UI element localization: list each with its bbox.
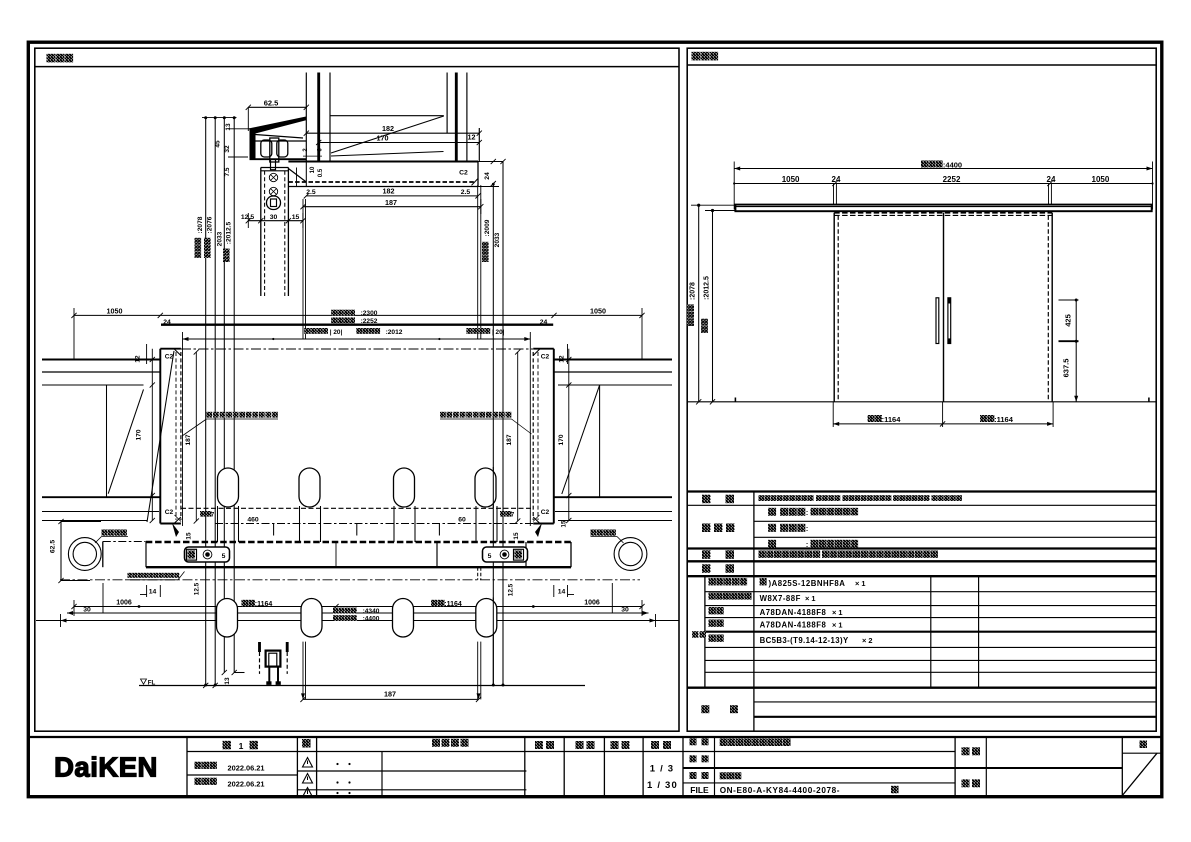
svg-text:15: 15: [561, 520, 568, 527]
hanger mounting plate: [250, 129, 256, 159]
svg-text:2.5: 2.5: [306, 189, 316, 196]
dim 13 floor: [234, 672, 244, 674]
hanging door bar top dashed: [146, 541, 571, 543]
plan break oval 4: [475, 468, 496, 507]
front view right door right edge: [1051, 213, 1053, 402]
rotated label 扉高:2012.5: [223, 249, 230, 262]
plan right jamb chamfers: [533, 349, 540, 356]
dim line 2009 redraw over oval: [492, 467, 494, 508]
title block 頁 cell: [1122, 752, 1162, 754]
plan left jamb chamfers: [174, 349, 181, 356]
extension line 13 dim bottom: [228, 128, 263, 130]
hanging door bar bottom: [146, 566, 571, 568]
floor guide outer box: [258, 642, 261, 652]
svg-text:182: 182: [382, 124, 394, 133]
spec table label 把手: [702, 550, 711, 559]
front view door top dashed: [834, 212, 1052, 214]
spec sub row 右扉: [709, 607, 716, 614]
spec value handle: [759, 551, 766, 558]
svg-text:A78DAN-4188F8: A78DAN-4188F8: [760, 621, 827, 630]
title block top border: [28, 736, 1162, 738]
svg-text::2012: :2012: [386, 329, 403, 336]
dim row 4400: [36, 620, 679, 622]
svg-text:1050: 1050: [590, 306, 606, 315]
svg-text:170: 170: [136, 429, 143, 440]
svg-text:24: 24: [832, 175, 841, 184]
svg-text:12.5: 12.5: [508, 583, 515, 596]
svg-text:425: 425: [1064, 314, 1073, 327]
svg-text:187: 187: [385, 198, 397, 207]
svg-text::: :: [806, 542, 808, 549]
front view left door left edge: [833, 213, 835, 402]
svg-text:5: 5: [222, 553, 226, 560]
dim line 2009 vertical: [492, 184, 494, 686]
label 固定ビス用穴隠しキャップ left: [207, 412, 213, 418]
door stop ring left: [68, 538, 101, 571]
spec sub row 引手: [709, 635, 716, 642]
hanging door bar right end: [570, 542, 572, 567]
svg-text:62.5: 62.5: [50, 540, 57, 553]
plan dim 170 right: [568, 349, 570, 521]
plan break oval 1: [218, 468, 239, 507]
dim line 枠内高2076: [214, 118, 216, 686]
svg-text:187: 187: [384, 689, 396, 698]
spec table top border: [687, 490, 1156, 492]
svg-text::2078: :2078: [690, 282, 697, 300]
dim lines 2009 2033 redraw over lower oval: [492, 598, 494, 686]
spec sub row 固定枠: [709, 578, 716, 585]
front view left dim label 扉高:2012.5 rotated: [701, 319, 708, 333]
front view floor line: [687, 401, 1156, 403]
lower break oval 4: [476, 599, 497, 638]
svg-text:5: 5: [488, 553, 492, 560]
dim チリ7 labels: [200, 511, 206, 517]
wall break diagonal long: [331, 116, 444, 153]
ext verticals 1006 dims: [102, 583, 104, 614]
spec value row1: [759, 495, 765, 501]
front view 425 extension line: [1059, 299, 1079, 301]
title block 図名 label: [690, 772, 697, 779]
svg-text::: :: [806, 510, 808, 517]
revision warning triangle 3: [303, 788, 313, 798]
front view 425 dim line: [1075, 300, 1077, 341]
right panel title 正面図: [692, 52, 701, 61]
front view right door handle: [948, 298, 951, 344]
door panel section top cap: [261, 167, 289, 169]
door opening verticals left pair lower: [302, 642, 304, 700]
plan dim label 枠内幅2:2252: [331, 317, 337, 323]
plan dim line 2252 row thick: [161, 324, 553, 326]
title block name rows: [683, 767, 1123, 769]
dim 12.5 30 15 line: [248, 220, 303, 222]
right panel title underline: [687, 64, 1156, 66]
svg-text:FL: FL: [148, 680, 156, 687]
svg-text:2.5: 2.5: [461, 189, 471, 196]
corner arrow right: [535, 523, 542, 537]
svg-text:170: 170: [558, 434, 565, 445]
hanger roller wheel 1: [261, 140, 272, 157]
svg-text:13: 13: [225, 123, 232, 131]
svg-text::: :: [806, 526, 808, 533]
dim row 1164 plan: [74, 606, 642, 608]
dim line 2033b vertical: [502, 162, 504, 686]
lower break oval 1: [217, 599, 238, 638]
spec sub row 左扉: [709, 620, 716, 627]
title block name value おもいやりシリーズ: [720, 738, 728, 746]
front view dim label 扉幅:1164 right: [980, 415, 987, 422]
svg-text:C2: C2: [459, 170, 468, 177]
floor guide legs: [268, 667, 270, 682]
plan dim label 引残し20 right: [466, 328, 472, 334]
title block 件名 label: [962, 747, 970, 755]
title block 第1版 header: [223, 741, 232, 750]
spec table label 備考: [701, 705, 709, 713]
plan right wall face lines: [554, 359, 672, 361]
dim 460 row: [215, 523, 533, 525]
plan dim legs bottom: [73, 600, 75, 616]
svg-text::4340: :4340: [363, 608, 380, 615]
svg-text:1050: 1050: [782, 175, 800, 184]
svg-text:12.5: 12.5: [194, 582, 201, 595]
door panel section right inner dashed: [284, 171, 286, 296]
dim line 2033: [223, 118, 225, 673]
spec table label 仕上げ: [702, 524, 711, 533]
front view left door handle: [936, 298, 939, 344]
floor line: [139, 685, 585, 687]
svg-text:ON-E80-A-KY84-4400-2078-: ON-E80-A-KY84-4400-2078-: [720, 786, 840, 795]
svg-text:2033: 2033: [217, 231, 224, 246]
spec table value sub-columns: [930, 576, 932, 688]
title block 改訂日 row: [195, 778, 202, 785]
plan dim label 扉幅:1164 right: [431, 600, 438, 607]
hanging door bar left end: [102, 542, 104, 568]
svg-text::2300: :2300: [361, 310, 378, 317]
svg-text:13: 13: [224, 677, 231, 685]
plan pocket centerline dashdot: [181, 348, 533, 350]
lower break oval 3: [393, 599, 414, 638]
label 固定ビス用穴隠しキャップ right: [440, 412, 446, 418]
door panel section left edge: [260, 168, 262, 297]
svg-text:460: 460: [247, 517, 259, 524]
left panel title 断面図: [47, 54, 56, 63]
dim 2.5 182 2.5 line: [306, 195, 478, 197]
svg-text:1006: 1006: [584, 599, 600, 606]
title block 図名 value 三面図: [720, 772, 727, 779]
spec table rotated label 品構: [692, 631, 699, 638]
door opening verticals right pair: [477, 185, 479, 339]
hanging door bar middle dividers: [436, 542, 438, 567]
plan left wall hatch diagonal: [108, 389, 143, 493]
revision warning triangle 2: [303, 774, 313, 784]
door screw 1: [269, 173, 277, 181]
svg-text::2076: :2076: [207, 216, 214, 233]
plan dim legs: [73, 308, 75, 360]
svg-text:1006: 1006: [116, 599, 132, 606]
plan break oval 3: [394, 468, 415, 507]
svg-text:W8X7-88F: W8X7-88F: [760, 594, 801, 603]
svg-text::2009: :2009: [484, 219, 491, 236]
front view left dim 扉高2012.5 line: [712, 211, 714, 402]
front view left dim label 枠外高:2078 rotated: [687, 304, 694, 326]
spec table label 品番: [702, 564, 711, 573]
plan pocket bottom dashed: [181, 507, 533, 509]
lower break oval 2: [301, 599, 322, 638]
revision history dots: [336, 763, 338, 765]
svg-text::1164: :1164: [255, 601, 273, 608]
label 吊戸当り right: [591, 530, 597, 536]
door opening verticals left pair: [302, 199, 304, 339]
frame head bottom dashed: [288, 181, 474, 183]
spec sub row レールセット: [709, 593, 716, 600]
svg-text::4400: :4400: [363, 616, 380, 623]
dim 62.5 vertical: [60, 522, 62, 581]
svg-text:32: 32: [224, 145, 231, 153]
svg-text:10: 10: [310, 166, 316, 173]
right panel border (front view): [687, 48, 1156, 731]
plan dim label 枠外幅2:2300: [331, 310, 337, 316]
front view 637.5 dim line: [1075, 341, 1077, 402]
svg-text:C2: C2: [541, 354, 550, 361]
svg-text:12: 12: [468, 133, 476, 142]
wall line group left: [305, 73, 307, 162]
dim 182 line: [306, 132, 479, 134]
svg-text:C2: C2: [541, 509, 550, 516]
plan dim 187 left: [195, 352, 197, 521]
rotated label 枠外高:2078: [195, 238, 202, 258]
title block page diagonal: [1122, 753, 1157, 795]
svg-text:1 / 3: 1 / 3: [650, 764, 675, 775]
plan dim line 2012 row: [183, 338, 531, 340]
svg-text:DaiKEN: DaiKEN: [54, 752, 158, 783]
front view extension lines top: [733, 162, 735, 210]
svg-text:2022.06.21: 2022.06.21: [228, 779, 265, 788]
front view hanging rail bar: [735, 205, 1151, 212]
label 吊戸当り left: [102, 530, 108, 536]
frame head left verticals: [305, 162, 307, 187]
dim 187 floor: [303, 698, 479, 700]
dashed pair below bar right: [477, 567, 479, 580]
title block 版 header: [302, 739, 311, 748]
label 制動や引込装置含めず: [128, 573, 133, 578]
svg-text::2078: :2078: [197, 216, 204, 233]
svg-text:24: 24: [1047, 175, 1056, 184]
dim 24 frame head: [491, 159, 496, 164]
svg-text:1: 1: [239, 741, 244, 751]
left panel border (section view): [35, 48, 679, 731]
soffit top horizontal line: [331, 115, 444, 117]
svg-text:FILE: FILE: [690, 785, 709, 795]
extension line 32 bottom: [228, 156, 248, 158]
top extension line for height dims: [202, 117, 237, 119]
spec value door panel olefin: [768, 508, 776, 516]
svg-text:× 1: × 1: [855, 579, 865, 588]
svg-text::4400: :4400: [943, 161, 962, 170]
plan dim label 扉幅:1164 left: [242, 600, 249, 607]
revision warning triangle 1: [303, 758, 313, 768]
frame head top line: [288, 160, 478, 162]
svg-text:1 / 30: 1 / 30: [647, 780, 678, 791]
svg-text:BC5B3-(T9.14-12-13)Y: BC5B3-(T9.14-12-13)Y: [760, 636, 849, 645]
svg-text:30: 30: [270, 214, 278, 221]
plan dim label 特注幅:2012: [356, 328, 362, 334]
svg-text:1050: 1050: [1092, 175, 1110, 184]
title block 作成 header: [611, 741, 619, 749]
plan left wall stud vertical: [106, 385, 108, 497]
frame head chamfer C2: [472, 179, 479, 186]
plan dim label 枠外幅1:4400: [333, 615, 339, 621]
dashdot line below door bar: [60, 579, 640, 581]
svg-text:7.5: 7.5: [224, 167, 231, 176]
front view left dim extension lines: [691, 204, 735, 206]
front view rail end floor ticks: [734, 398, 736, 402]
plan right wall stud vertical: [599, 385, 601, 497]
door stop ring right: [614, 538, 647, 571]
svg-text::1164: :1164: [994, 415, 1014, 424]
plan right jamb box: [553, 349, 555, 524]
dim line 扉高2012.5: [233, 118, 235, 673]
svg-text:15: 15: [513, 532, 520, 540]
title block header underline: [187, 751, 955, 753]
svg-text:| 20|: | 20|: [492, 329, 505, 336]
rotated label 特注高:2009: [482, 242, 489, 262]
front view center meeting stile: [943, 213, 945, 402]
plan left jamb long diagonal: [147, 351, 174, 522]
frame head bottom solid: [288, 186, 478, 188]
svg-text:1050: 1050: [107, 306, 123, 315]
title block 縮尺 header: [651, 741, 659, 749]
svg-text:637.5: 637.5: [1062, 359, 1071, 378]
plan oval tails: [217, 506, 219, 542]
revision row lines: [297, 770, 526, 772]
dim row 4340: [67, 612, 649, 614]
title block 承認 header: [535, 741, 543, 749]
hanging door bar left dashdot segment: [103, 541, 146, 543]
spec value door window: [768, 524, 776, 532]
svg-text:| 20|: | 20|: [330, 329, 343, 336]
door screw 2: [269, 187, 277, 195]
svg-text::1164: :1164: [444, 601, 462, 608]
svg-text:62.5: 62.5: [264, 99, 279, 108]
plan left wall bottom lines: [42, 496, 160, 498]
svg-text:2022.06.21: 2022.06.21: [228, 763, 265, 772]
front view dim line 1164 pair: [833, 423, 1053, 425]
svg-text::2012.5: :2012.5: [226, 221, 233, 244]
svg-text:0.5: 0.5: [318, 168, 324, 177]
front view dim row2 line: [734, 183, 1152, 185]
title block row divider 制定/改訂: [187, 774, 297, 776]
svg-text:24: 24: [163, 319, 171, 326]
title block 改訂履歴 header: [432, 739, 440, 747]
svg-text::1164: :1164: [882, 415, 902, 424]
title block vertical dividers: [186, 737, 188, 796]
dim 170 line: [319, 142, 480, 144]
wall break diagonal shallow: [331, 152, 444, 157]
svg-text:30: 30: [83, 607, 91, 614]
svg-text::2252: :2252: [361, 318, 378, 325]
svg-text:12: 12: [135, 355, 142, 363]
plan dim label 枠内幅1:4340: [333, 608, 339, 614]
FL marker: [141, 679, 147, 684]
hanger base line: [250, 158, 307, 160]
plan dim label 引残し20 left: [304, 328, 310, 334]
spec value frame olefin: [768, 540, 776, 548]
svg-text:14: 14: [558, 589, 566, 596]
plan dim line 2300 row: [74, 314, 642, 316]
svg-text:2252: 2252: [943, 175, 961, 184]
plan right wall hatch diagonal: [562, 385, 600, 494]
svg-text:C2: C2: [165, 354, 174, 361]
door hanger capsule: [267, 196, 281, 210]
svg-text:15: 15: [186, 532, 193, 540]
hanger roller wheel 2: [277, 140, 288, 157]
svg-text:60: 60: [458, 517, 466, 524]
door bar hardware right: [483, 547, 528, 562]
dim 187 line upper: [303, 206, 481, 208]
svg-text:182: 182: [383, 187, 395, 196]
plan right wall bottom lines: [554, 496, 672, 498]
title block 施主 label: [962, 779, 970, 787]
rotated label 枠内高:2076: [204, 238, 211, 258]
wall line group right: [446, 73, 448, 134]
svg-text:2033: 2033: [494, 232, 501, 247]
plan dim 170 left: [151, 349, 153, 521]
front view left dim 枠外高2078 line: [698, 205, 700, 402]
svg-text:C2: C2: [165, 509, 174, 516]
door bar hardware left: [185, 547, 230, 562]
spec table row lines: [687, 504, 1156, 506]
svg-text:15: 15: [292, 214, 300, 221]
svg-text:187: 187: [506, 434, 513, 445]
svg-text:45: 45: [215, 140, 222, 148]
svg-text:30: 30: [621, 607, 629, 614]
svg-text:)A825S-12BNHF8A: )A825S-12BNHF8A: [769, 579, 846, 588]
svg-text:× 2: × 2: [862, 636, 872, 645]
front view dim label 扉幅:1164 left: [868, 415, 875, 422]
floor guide feet pads: [266, 681, 271, 685]
svg-text::2012.5: :2012.5: [704, 276, 711, 300]
dim line 枠外高2078: [205, 118, 207, 686]
door panel section right edge: [287, 168, 289, 297]
spec table sub-label column divider: [704, 576, 706, 688]
front view dim 4400 total line: [734, 168, 1152, 170]
svg-text:24: 24: [540, 319, 548, 326]
svg-text:× 1: × 1: [805, 594, 815, 603]
door panel section left inner dashed: [264, 171, 266, 296]
plan left wall face lines: [42, 359, 160, 361]
front view door width dim extensions: [832, 402, 834, 427]
spec table label 要式: [702, 495, 711, 504]
title block 名称 label: [690, 738, 697, 745]
floor guide inner box: [266, 651, 281, 667]
left panel title underline: [35, 66, 679, 68]
plan break oval 2: [299, 468, 320, 507]
svg-text:A78DAN-4188F8: A78DAN-4188F8: [760, 608, 827, 617]
title block 制定日 row: [195, 762, 202, 769]
frame head right edge: [477, 162, 479, 187]
svg-text:× 1: × 1: [832, 621, 842, 630]
svg-text:14: 14: [149, 589, 157, 596]
title block 品番 label: [690, 755, 697, 762]
hanger top flange: [249, 117, 307, 135]
svg-text:12: 12: [559, 355, 566, 363]
door top to frame head diagonal: [288, 169, 306, 183]
hanger strap: [271, 159, 276, 170]
corner arrow left: [172, 523, 179, 537]
spec table label column divider: [753, 492, 755, 732]
svg-text:187: 187: [185, 434, 192, 445]
svg-text:12.5: 12.5: [241, 214, 254, 221]
plan dim 187 right: [517, 352, 519, 521]
